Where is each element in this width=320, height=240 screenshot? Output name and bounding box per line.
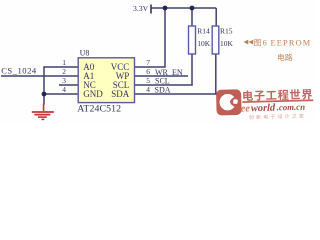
- watermark tagline: [249, 113, 304, 119]
- junction dot VCC riser on rail: [163, 6, 168, 11]
- svg-text:EEPROM: EEPROM: [271, 38, 312, 47]
- svg-text:.com.cn: .com.cn: [277, 102, 306, 113]
- resistor R14 bottom lead: [191, 54, 193, 86]
- ground: [32, 104, 54, 120]
- svg-text:world: world: [251, 103, 276, 115]
- svg-text:AT24C512: AT24C512: [77, 103, 121, 114]
- ic U8 AT24C512 box: [78, 58, 134, 103]
- resistor R15 bottom lead: [215, 54, 217, 95]
- svg-text:7: 7: [146, 58, 150, 67]
- wire CS_1024 pin 2: [1, 75, 78, 77]
- svg-text:10K: 10K: [220, 39, 234, 48]
- svg-text:3.3V: 3.3V: [133, 4, 149, 13]
- svg-text:ee: ee: [241, 103, 251, 114]
- svg-text:5: 5: [146, 76, 150, 85]
- wire pin 1 to ground bus: [44, 67, 78, 105]
- svg-text:EN: EN: [172, 68, 183, 77]
- svg-text:U8: U8: [80, 49, 90, 58]
- annotation arrows: [244, 40, 254, 45]
- power port 3.3V bar: [150, 5, 152, 14]
- svg-text:CS_1024: CS_1024: [1, 66, 37, 76]
- resistor R15 top lead: [215, 8, 217, 26]
- svg-text:1: 1: [62, 58, 66, 67]
- wire pin 4 GND: [44, 93, 78, 95]
- watermark 电子工程世界: [243, 89, 312, 101]
- wire SCL pin 5: [135, 84, 193, 86]
- wire pin 3 stub: [59, 84, 78, 86]
- svg-text:GND: GND: [83, 89, 103, 99]
- svg-text:6: 6: [263, 38, 267, 47]
- svg-text:R15: R15: [220, 27, 233, 36]
- svg-text:SCL: SCL: [155, 76, 170, 85]
- wire WR EN pin 6: [135, 75, 189, 77]
- svg-text:6: 6: [146, 67, 150, 76]
- svg-text:2: 2: [62, 67, 66, 76]
- junction dot R14 on rail: [190, 6, 195, 11]
- watermark logo red square: [216, 89, 242, 115]
- resistor R14 leads: [191, 8, 193, 26]
- wire VCC pin 7 riser: [135, 8, 166, 67]
- wire SDA pin 4: [135, 93, 217, 95]
- watermark underline: [242, 99, 313, 103]
- svg-text:SDA: SDA: [111, 89, 130, 99]
- watermark logo crescent disc: [219, 94, 236, 111]
- watermark logo crescent notch: [230, 94, 241, 109]
- svg-text:10K: 10K: [197, 39, 211, 48]
- svg-text:R14: R14: [197, 26, 210, 35]
- resistor R15 body: [212, 26, 219, 54]
- wire 3.3V rail: [151, 7, 216, 9]
- watermark eeworld.com.cn: [241, 102, 306, 115]
- svg-text:3: 3: [62, 76, 66, 85]
- junction dot ground bus pin 4: [42, 92, 47, 97]
- svg-text:4: 4: [62, 85, 66, 94]
- svg-text:4: 4: [146, 85, 150, 94]
- resistor R14 body: [189, 26, 196, 54]
- watermark logo dot: [233, 99, 238, 104]
- watermark: [216, 87, 314, 120]
- svg-text:SDA: SDA: [155, 86, 171, 95]
- annotation 电路: [278, 54, 292, 61]
- annotation figure caption 图: [254, 39, 261, 46]
